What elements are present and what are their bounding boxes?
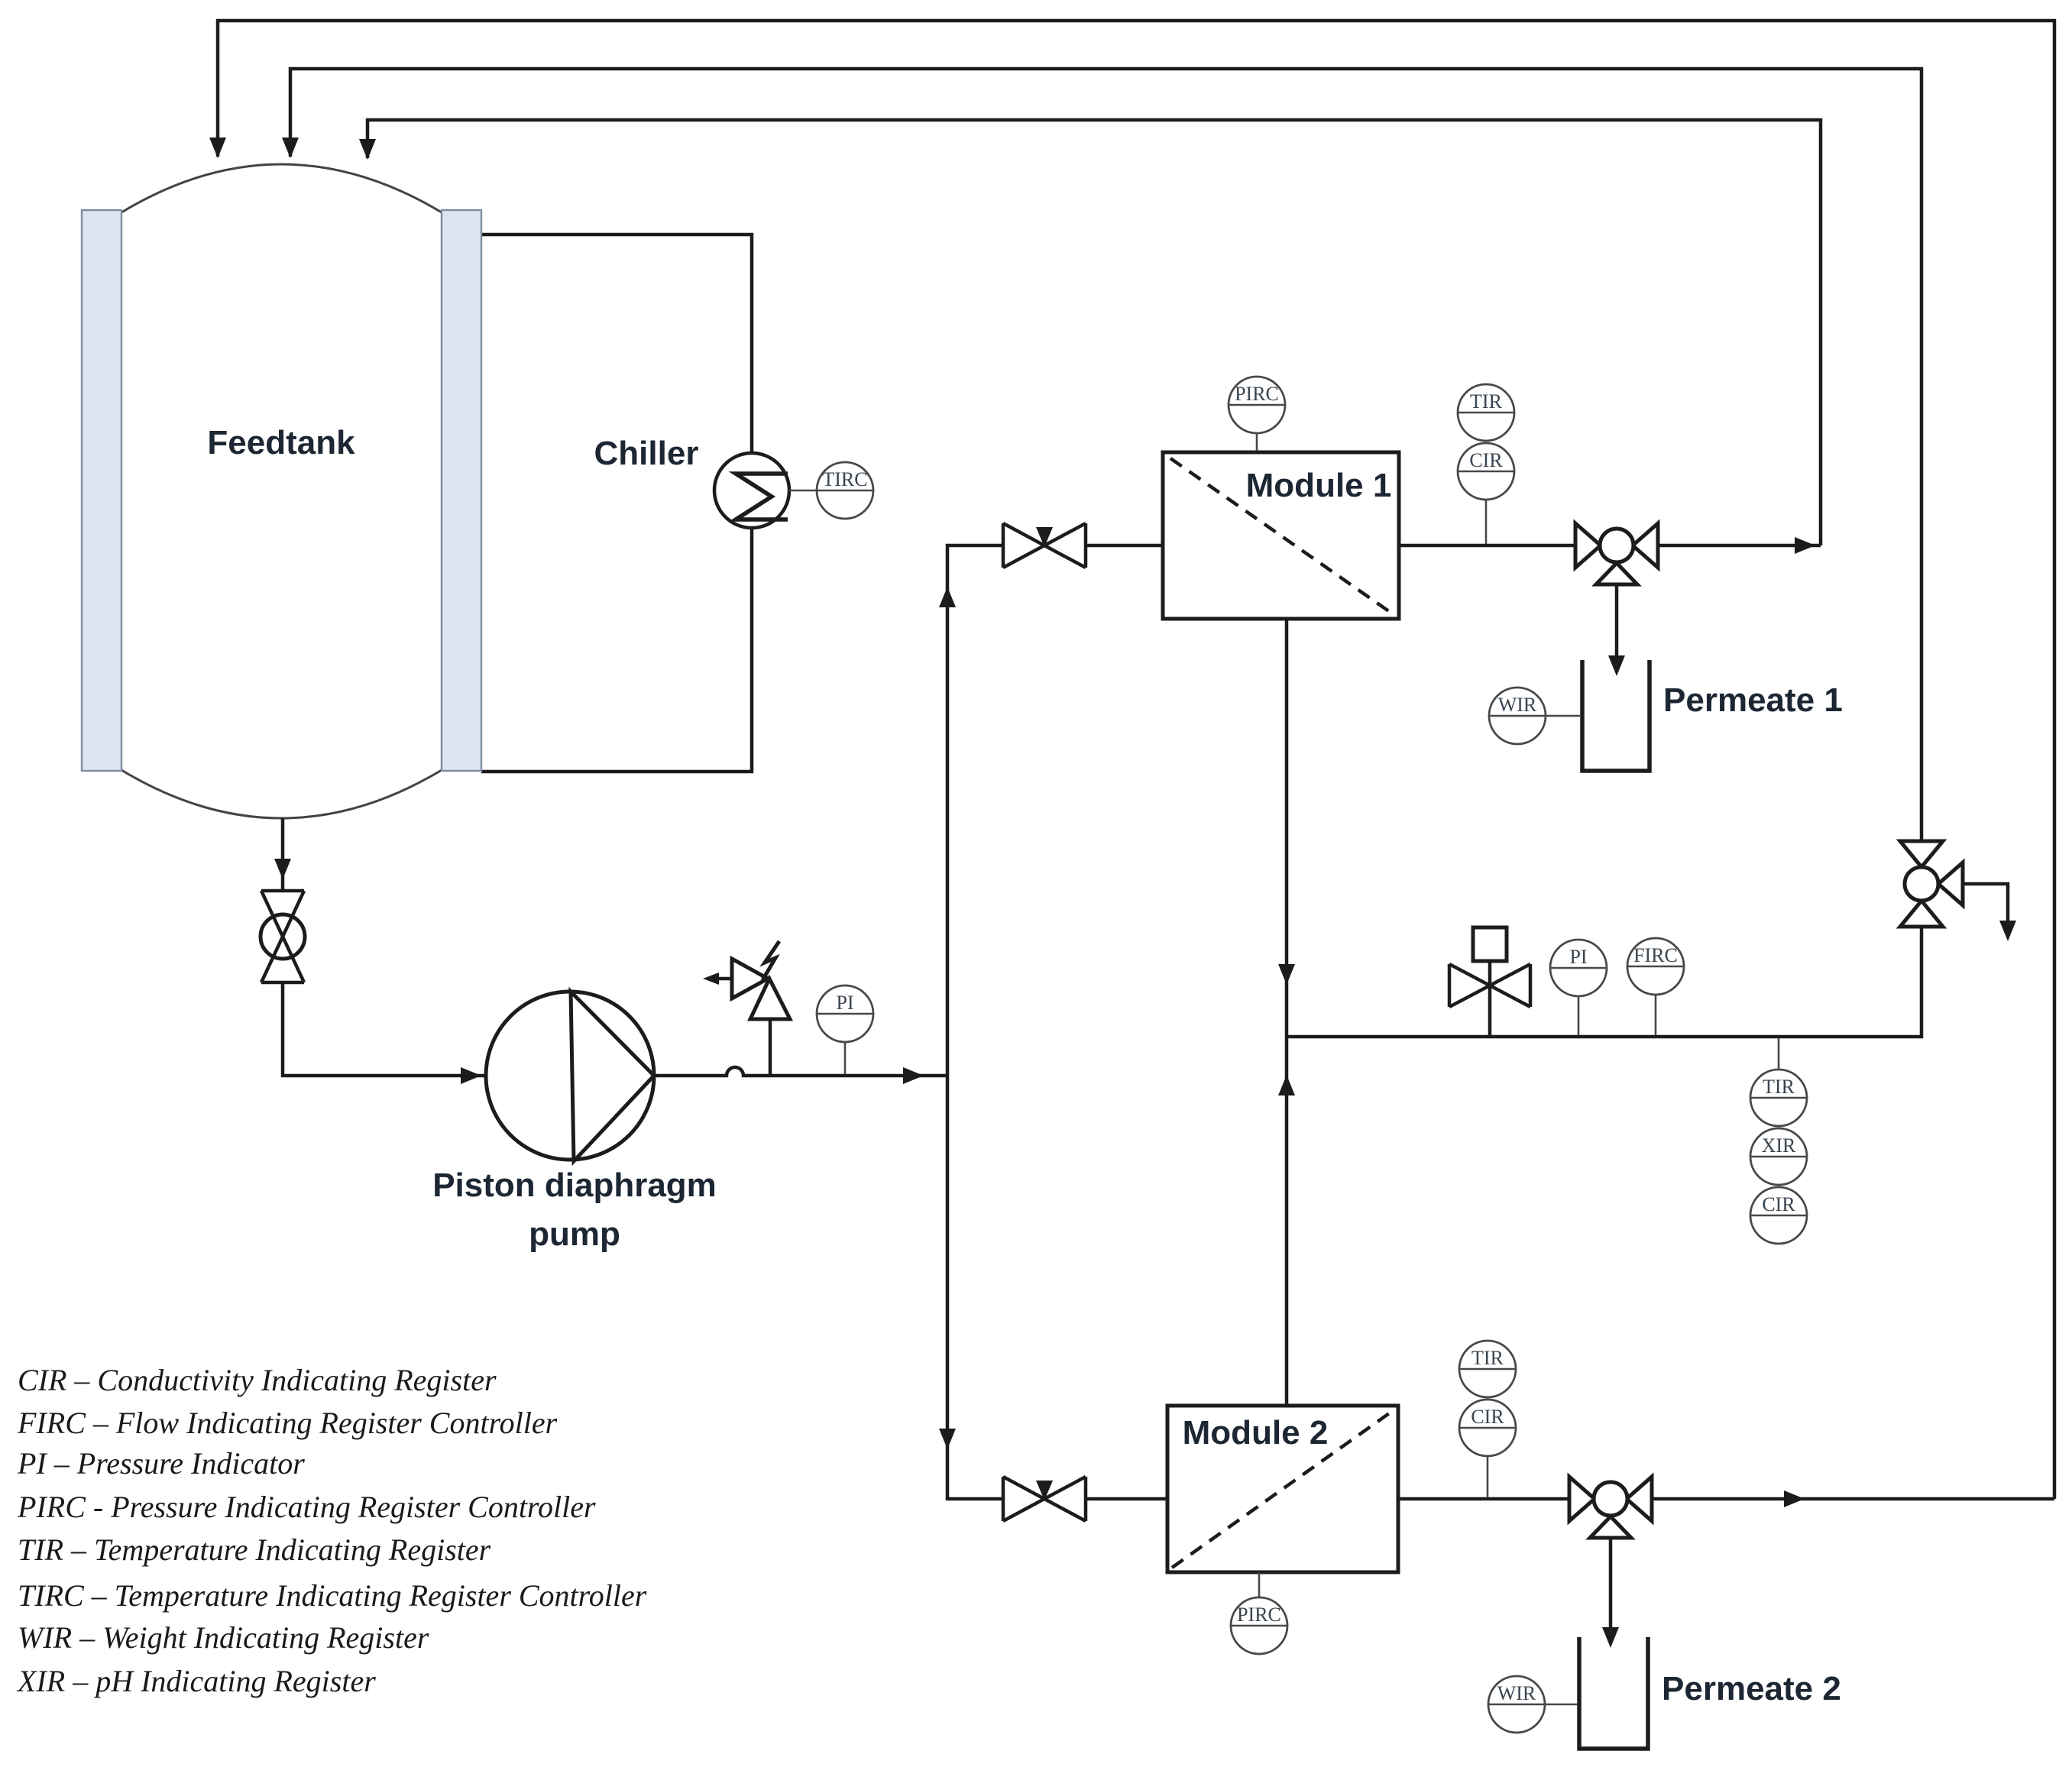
svg-text:PIRC: PIRC [1237, 1604, 1281, 1626]
svg-text:Module 2: Module 2 [1183, 1414, 1329, 1451]
svg-text:WIR: WIR [1498, 694, 1537, 716]
svg-text:Feedtank: Feedtank [207, 424, 355, 461]
svg-text:XIR – pH Indicating Register: XIR – pH Indicating Register [16, 1664, 376, 1698]
svg-text:FIRC – Flow Indicating Registe: FIRC – Flow Indicating Register Controll… [17, 1406, 558, 1440]
svg-text:CIR – Conductivity Indicating: CIR – Conductivity Indicating Register [18, 1363, 497, 1397]
svg-text:PI – Pressure Indicator: PI – Pressure Indicator [17, 1446, 305, 1481]
svg-text:TIRC – Temperature Indicating: TIRC – Temperature Indicating Register C… [18, 1578, 647, 1613]
svg-text:WIR – Weight Indicating Regist: WIR – Weight Indicating Register [18, 1620, 429, 1655]
svg-text:CIR: CIR [1762, 1193, 1795, 1215]
svg-text:TIRC: TIRC [822, 468, 867, 490]
svg-text:XIR: XIR [1762, 1134, 1796, 1157]
svg-text:Module 1: Module 1 [1246, 467, 1392, 504]
svg-text:TIR: TIR [1471, 1347, 1504, 1369]
svg-text:WIR: WIR [1497, 1682, 1536, 1704]
svg-text:PI: PI [1569, 946, 1587, 968]
svg-text:TIR – Temperature Indicating R: TIR – Temperature Indicating Register [18, 1532, 491, 1567]
svg-text:Permeate 2: Permeate 2 [1662, 1670, 1841, 1707]
svg-text:PI: PI [836, 992, 853, 1014]
svg-text:CIR: CIR [1469, 449, 1503, 471]
svg-text:Piston diaphragm: Piston diaphragm [432, 1167, 717, 1204]
svg-text:PIRC: PIRC [1235, 383, 1279, 405]
svg-text:pump: pump [529, 1215, 620, 1253]
svg-text:Chiller: Chiller [594, 435, 699, 472]
svg-text:PIRC - Pressure Indicating Reg: PIRC - Pressure Indicating Register Cont… [17, 1490, 596, 1524]
svg-text:Permeate 1: Permeate 1 [1663, 681, 1843, 719]
svg-text:CIR: CIR [1471, 1406, 1504, 1428]
svg-text:TIR: TIR [1470, 390, 1503, 413]
svg-text:FIRC: FIRC [1633, 944, 1678, 966]
svg-text:TIR: TIR [1763, 1076, 1795, 1098]
